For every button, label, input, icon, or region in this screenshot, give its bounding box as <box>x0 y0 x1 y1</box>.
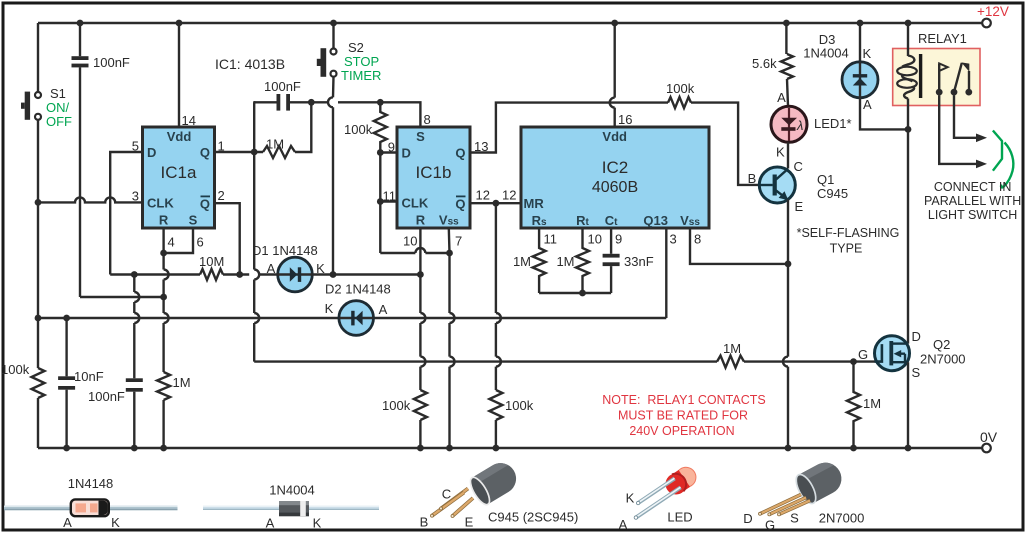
wire IC1b Qbar to IC2 MR <box>470 200 521 207</box>
svg-text:2N7000: 2N7000 <box>819 511 865 526</box>
wire contact1 to lower arrow <box>939 95 987 168</box>
svg-text:1M: 1M <box>266 137 284 152</box>
svg-text:11: 11 <box>383 189 397 204</box>
wire 10M line y274.5 <box>110 271 424 278</box>
wire D3 anode to relay drop <box>860 98 911 133</box>
resistor 1M gate series <box>717 341 744 368</box>
svg-text:A: A <box>863 97 872 112</box>
wire MR node to 100k B <box>496 203 501 390</box>
IC1b box <box>397 127 470 228</box>
svg-text:D1 1N4148: D1 1N4148 <box>252 243 318 258</box>
label connect in parallel <box>924 180 1021 222</box>
resistor 100k pulldown A <box>382 390 427 420</box>
svg-text:D: D <box>147 145 156 160</box>
label self-flashing <box>797 226 900 256</box>
svg-text:10: 10 <box>588 232 602 247</box>
package drawing 2N7000 <box>743 457 864 532</box>
svg-text:100k: 100k <box>505 398 534 413</box>
svg-text:A: A <box>63 515 72 530</box>
wire R/S down to 1M with hops <box>164 253 169 372</box>
wire reset RC horizontal y297 <box>80 294 167 301</box>
wire 100k B to rail <box>493 420 500 451</box>
wire 1M to Q2 gate <box>744 358 875 365</box>
svg-text:LED1*: LED1* <box>814 116 852 131</box>
svg-text:ON/: ON/ <box>46 100 70 115</box>
svg-text:λ: λ <box>796 118 803 133</box>
svg-text:240V OPERATION: 240V OPERATION <box>629 424 734 438</box>
wire LED1 to Q1 collector <box>787 142 789 168</box>
svg-text:E: E <box>795 199 804 214</box>
svg-text:6: 6 <box>197 235 204 250</box>
svg-text:B: B <box>420 515 429 530</box>
transistor Q2 MOSFET <box>858 329 966 380</box>
svg-text:11: 11 <box>544 232 558 247</box>
svg-text:S: S <box>912 365 921 380</box>
svg-text:1M: 1M <box>513 254 531 269</box>
label IC1: 4013B <box>215 56 285 72</box>
wire relay drop to Q2 drain <box>907 129 909 343</box>
wire IC1a D pin drop <box>110 152 142 275</box>
capacitor 10nF <box>58 315 104 452</box>
svg-text:IC1a: IC1a <box>161 163 197 182</box>
svg-text:IC1: 4013B: IC1: 4013B <box>215 56 285 72</box>
svg-text:A: A <box>777 90 786 105</box>
svg-text:E: E <box>465 515 474 530</box>
IC2 box <box>521 127 709 228</box>
diode D3 <box>803 20 878 112</box>
wire IC1b Q13 to 100k base line <box>470 103 668 153</box>
svg-text:OFF: OFF <box>46 114 72 129</box>
wire IC1a Q1 pin feedback line <box>215 149 263 156</box>
svg-text:1N4004: 1N4004 <box>269 483 315 498</box>
svg-text:TIMER: TIMER <box>341 68 381 83</box>
svg-text:D: D <box>743 511 752 526</box>
IC1a box <box>143 127 215 228</box>
resistor 1M bottom-left <box>157 372 190 400</box>
wire IC1a R/S tie <box>160 228 193 256</box>
light switch symbol <box>993 131 1013 188</box>
LED LED1 <box>771 90 852 160</box>
relay coil <box>897 20 922 130</box>
svg-text:Q2: Q2 <box>933 337 950 352</box>
svg-text:Q: Q <box>455 197 465 212</box>
svg-text:MR: MR <box>524 196 545 211</box>
svg-text:16: 16 <box>618 112 632 127</box>
svg-text:10M: 10M <box>199 254 224 269</box>
svg-text:1N4148: 1N4148 <box>68 476 114 491</box>
IC2 pin numbers <box>544 112 702 247</box>
0V bottom rail <box>38 447 982 449</box>
svg-text:Vdd: Vdd <box>167 129 192 144</box>
wire 1M to rail <box>160 400 167 451</box>
svg-text:C945 (2SC945): C945 (2SC945) <box>488 510 578 525</box>
svg-text:CONNECT IN: CONNECT IN <box>934 180 1012 194</box>
svg-text:A: A <box>266 516 275 531</box>
svg-text:S2: S2 <box>348 40 364 55</box>
svg-text:4060B: 4060B <box>592 179 638 196</box>
svg-text:D: D <box>912 329 921 344</box>
IC1a pin numbers <box>132 113 225 250</box>
svg-text:*SELF-FLASHING: *SELF-FLASHING <box>797 226 900 240</box>
svg-text:100nF: 100nF <box>88 389 125 404</box>
svg-text:1M: 1M <box>556 254 574 269</box>
svg-text:NOTE: RELAY1 CONTACTS: NOTE: RELAY1 CONTACTS <box>602 393 765 407</box>
svg-text:1M: 1M <box>723 341 741 356</box>
wire IC2 Vss pin8 to ground join <box>690 228 791 267</box>
svg-text:S: S <box>189 213 198 228</box>
svg-text:K: K <box>776 145 785 160</box>
svg-text:2N7000: 2N7000 <box>920 352 966 367</box>
svg-text:C945: C945 <box>817 186 848 201</box>
svg-text:K: K <box>111 515 120 530</box>
svg-text:G: G <box>858 347 868 362</box>
resistor 100k pulldown B <box>489 390 533 420</box>
svg-text:100nF: 100nF <box>93 55 130 70</box>
svg-text:TYPE: TYPE <box>830 242 863 256</box>
relay contact 1 <box>936 63 948 95</box>
transistor Q1 <box>748 159 848 214</box>
svg-text:9: 9 <box>615 232 622 247</box>
package drawing C945 transistor <box>420 457 579 529</box>
svg-text:LED: LED <box>667 510 692 525</box>
svg-text:C: C <box>794 159 803 174</box>
wire 100k to Q1 base <box>691 103 773 185</box>
svg-text:Q: Q <box>200 197 210 212</box>
capacitor C 100nF top-left <box>72 20 130 297</box>
wire S node corner to IC1b S pin <box>375 102 420 127</box>
svg-text:G: G <box>765 518 775 533</box>
svg-text:Q: Q <box>455 146 465 161</box>
wire 1M to cap corner <box>295 102 311 152</box>
package drawing LED <box>619 463 700 532</box>
+12V top rail <box>38 22 982 24</box>
svg-text:Vdd: Vdd <box>602 129 627 144</box>
svg-text:IC2: IC2 <box>602 158 628 177</box>
resistor 1M Rt <box>556 228 589 293</box>
svg-text:2: 2 <box>218 188 225 203</box>
svg-text:RELAY1: RELAY1 <box>918 31 967 46</box>
svg-text:33nF: 33nF <box>624 254 654 269</box>
svg-text:12: 12 <box>476 188 490 203</box>
svg-text:D2 1N4148: D2 1N4148 <box>325 282 391 297</box>
svg-text:C: C <box>442 487 451 502</box>
svg-text:PARALLEL WITH: PARALLEL WITH <box>924 194 1021 208</box>
capacitor 33nF Ct <box>603 228 654 293</box>
svg-text:S1: S1 <box>50 86 66 101</box>
diode D2 <box>325 282 391 336</box>
wire Q1 emitter to ground rail <box>783 200 791 452</box>
node S1-CLK <box>35 199 42 206</box>
svg-text:5: 5 <box>132 139 139 154</box>
gate line from feedback to Q2 <box>254 360 717 362</box>
diode D1 <box>252 243 325 292</box>
svg-text:0V: 0V <box>980 429 998 445</box>
svg-text:9: 9 <box>388 140 395 155</box>
wire IC1b Vss to rail <box>446 228 454 451</box>
resistor 100k base <box>666 81 695 108</box>
wire Q2 source to rail <box>905 362 912 451</box>
svg-text:R: R <box>159 213 169 228</box>
relay contact 2 <box>951 62 973 95</box>
resistor 5.6k <box>752 20 793 79</box>
svg-text:LIGHT SWITCH: LIGHT SWITCH <box>928 208 1017 222</box>
resistor 100k IC1b pull-down <box>344 102 387 152</box>
wire IC1b R pin chain <box>420 228 425 390</box>
svg-text:S: S <box>790 511 799 526</box>
svg-text:3: 3 <box>670 232 677 247</box>
resistor 10M <box>199 254 224 280</box>
wire S1 bottom down left bus <box>37 120 39 368</box>
node left timing <box>35 315 42 322</box>
wire IC2 Vdd to rail with hop <box>610 20 618 127</box>
wire timing bus y318 <box>38 317 666 319</box>
relay RELAY1 box <box>893 31 980 106</box>
svg-text:K: K <box>626 491 635 506</box>
svg-text:K: K <box>313 516 322 531</box>
svg-text:8: 8 <box>424 112 431 127</box>
svg-text:CLK: CLK <box>147 196 174 211</box>
svg-text:10: 10 <box>403 234 417 249</box>
svg-text:100k: 100k <box>1 362 30 377</box>
svg-text:7: 7 <box>455 234 462 249</box>
resistor 100k left <box>1 362 45 398</box>
wire IC1b D CLK ground chain <box>377 149 453 256</box>
svg-text:4: 4 <box>168 235 175 250</box>
svg-text:100nF: 100nF <box>264 79 301 94</box>
resistor 1M feedback <box>263 137 295 159</box>
resistor 1M gate pulldown <box>847 362 881 452</box>
0V terminal <box>980 429 998 452</box>
svg-text:R: R <box>416 213 426 228</box>
node cap to S node <box>308 99 375 106</box>
wire S1 top to rail <box>37 23 39 92</box>
+12V terminal <box>977 4 1009 27</box>
svg-text:Q: Q <box>200 145 210 160</box>
svg-text:100k: 100k <box>382 398 411 413</box>
svg-text:K: K <box>863 46 872 61</box>
IC1b pin numbers <box>383 112 517 249</box>
svg-text:S: S <box>416 129 425 144</box>
svg-text:IC1b: IC1b <box>416 163 452 182</box>
wire S1 to IC1a CLK with hops <box>38 197 143 202</box>
wire oscillator tie <box>539 290 611 297</box>
node 100k top <box>377 99 384 106</box>
svg-text:14: 14 <box>182 113 196 128</box>
svg-text:CLK: CLK <box>402 196 429 211</box>
capacitor C 100nF feedback <box>253 79 311 111</box>
svg-text:STOP: STOP <box>344 54 379 69</box>
resistor 1M Rs <box>513 228 546 293</box>
svg-text:12: 12 <box>502 188 516 203</box>
wire 100k to 0V rail <box>37 398 39 448</box>
svg-text:1N4004: 1N4004 <box>803 46 849 61</box>
svg-text:1M: 1M <box>173 375 191 390</box>
wire 5.6k to LED1 <box>787 79 788 106</box>
svg-text:K: K <box>325 301 334 316</box>
wire feedback vertical to gate line <box>253 102 259 361</box>
switch S2 <box>317 20 382 83</box>
wire IC1a Vdd to rail <box>176 20 183 127</box>
svg-text:Q1: Q1 <box>817 172 834 187</box>
wire IC2 Q13 pin3 drop to timing bus <box>665 228 667 318</box>
svg-text:3: 3 <box>132 189 139 204</box>
svg-text:MUST BE RATED FOR: MUST BE RATED FOR <box>618 409 748 423</box>
wire contact2 to upper arrow <box>954 95 987 142</box>
package drawing 1N4004 <box>203 483 379 531</box>
svg-text:+12V: +12V <box>977 4 1009 19</box>
svg-text:100k: 100k <box>344 122 373 137</box>
svg-text:A: A <box>619 517 628 532</box>
note relay contacts text <box>602 393 765 438</box>
wire S2 bottom to D1 node <box>328 77 334 275</box>
svg-text:1M: 1M <box>863 396 881 411</box>
capacitor 100nF bottom-left <box>88 271 143 451</box>
wire 100k A to rail <box>417 420 424 451</box>
svg-text:A: A <box>379 302 388 317</box>
switch S1 <box>21 86 72 129</box>
svg-text:10nF: 10nF <box>74 369 104 384</box>
svg-text:5.6k: 5.6k <box>752 56 777 71</box>
svg-text:100k: 100k <box>666 81 695 96</box>
svg-text:D: D <box>402 146 411 161</box>
svg-text:B: B <box>748 171 757 186</box>
wire IC1a Qbar drop <box>215 203 240 274</box>
package drawing 1N4148 <box>4 476 178 530</box>
svg-text:Q13: Q13 <box>643 213 668 228</box>
svg-text:8: 8 <box>694 232 701 247</box>
